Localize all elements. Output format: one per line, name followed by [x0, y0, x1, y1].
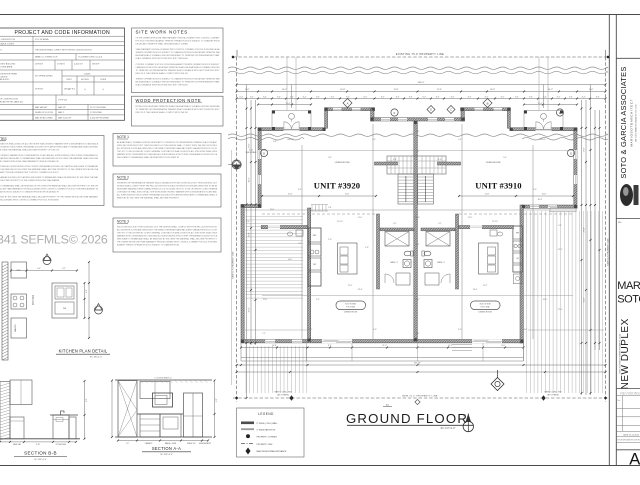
- section B-B dims: [0, 441, 76, 443]
- svg-text:4'-0": 4'-0": [246, 221, 250, 223]
- svg-text:3'-0": 3'-0": [298, 189, 302, 191]
- svg-text:A: A: [347, 101, 349, 105]
- mid dimension line across units: [244, 209, 577, 211]
- svg-text:8'-0": 8'-0": [245, 89, 249, 91]
- svg-text:14'-2": 14'-2": [548, 89, 553, 91]
- sink right unit: [424, 260, 432, 268]
- svg-text:12'-4": 12'-4": [348, 285, 353, 287]
- svg-text:8'-0": 8'-0": [589, 89, 593, 91]
- svg-text:SITE WORK NOTES: SITE WORK NOTES: [136, 29, 189, 34]
- svg-text:8'-4": 8'-4": [290, 96, 294, 98]
- svg-text:13'-4": 13'-4": [358, 289, 363, 291]
- diamond marker 1 left: [232, 160, 241, 169]
- section A-A base cabinets: [140, 414, 160, 437]
- beam dashed line right: [459, 213, 573, 215]
- svg-text:TERMITES OR PRESERVATIVE TREAT: TERMITES OR PRESERVATIVE TREATED IN ACCO…: [117, 182, 218, 185]
- svg-text:8'-4": 8'-4": [569, 96, 573, 98]
- section B-B sink cabinet: [53, 415, 69, 439]
- svg-text:3920-3910 NW 00 STREET MIAMI F: 3920-3910 NW 00 STREET MIAMI FL 33142: [618, 333, 621, 374]
- svg-text:ALL EXTERIOR DOORS AND WINDOWS: ALL EXTERIOR DOORS AND WINDOWS TO BE IMP…: [117, 229, 218, 232]
- svg-text:GROUP R-2: GROUP R-2: [64, 89, 76, 91]
- svg-text:G: G: [570, 151, 572, 155]
- svg-text:341 SEFMLS© 2026: 341 SEFMLS© 2026: [0, 233, 108, 247]
- hall wall right of stairs: [438, 162, 461, 165]
- svg-text:G: G: [263, 151, 265, 155]
- svg-text:THE DESIGN SHALL COMPLY WITH T: THE DESIGN SHALL COMPLY WITH THE FBC 202…: [35, 48, 92, 51]
- svg-text:8'-4": 8'-4": [303, 96, 307, 98]
- property corner (bottom-right): [604, 397, 606, 399]
- svg-text:8" WIDE (C.M.U) WALL: 8" WIDE (C.M.U) WALL: [257, 422, 279, 425]
- window openings right wall: [574, 150, 577, 159]
- sink left unit: [403, 260, 411, 268]
- svg-text:IN AN ORDERLY MANNER WITH CONS: IN AN ORDERLY MANNER WITH CONSIDERATION …: [0, 154, 98, 157]
- svg-text:MEANS INTERIOR FINISH: MEANS INTERIOR FINISH: [0, 73, 18, 76]
- svg-text:MAX 2: MAX 2: [58, 111, 65, 114]
- svg-text:7'-2": 7'-2": [416, 151, 420, 153]
- svg-text:THE OWNER WITH A ONE YEAR WARR: THE OWNER WITH A ONE YEAR WARRANTY FROM …: [117, 241, 218, 244]
- svg-text:ARE TO REMAIN AND SHALL BE REM: ARE TO REMAIN AND SHALL BE REMOVED BY HI…: [0, 184, 98, 187]
- svg-text:PROPERTY CORNER: PROPERTY CORNER: [257, 436, 278, 438]
- property line end flags: [236, 50, 238, 57]
- pwdr right unit: [513, 274, 522, 284]
- section A-A hatch dots ceiling: [140, 381, 143, 384]
- section A-A floor line: [115, 436, 212, 438]
- svg-text:ENTRY: ENTRY: [540, 139, 547, 141]
- svg-text:SECTION B-B: SECTION B-B: [24, 451, 57, 456]
- svg-text:2'-0": 2'-0": [298, 243, 302, 245]
- svg-text:NEW 50.75' PROPERTY LINE: NEW 50.75' PROPERTY LINE: [233, 251, 235, 279]
- property line bottom (dashed): [233, 397, 609, 399]
- svg-text:C: C: [450, 108, 452, 112]
- section B-B counter line: [50, 414, 78, 416]
- svg-text:KITCHEN SINK: KITCHEN SINK: [56, 444, 67, 446]
- grid marker diamond D: [427, 106, 435, 114]
- svg-text:ACCESS: ACCESS: [81, 78, 89, 81]
- svg-text:16'-4": 16'-4": [538, 199, 543, 201]
- title block firm box: [616, 57, 640, 59]
- svg-text:N: N: [463, 414, 466, 418]
- sliding door openings bottom wall: [322, 339, 352, 343]
- svg-text:NOTE 3: NOTE 3: [117, 220, 129, 224]
- svg-text:11'-6": 11'-6": [270, 209, 275, 211]
- svg-text:MAX 5,000 SF: MAX 5,000 SF: [58, 116, 72, 119]
- stair landing block: [387, 156, 446, 174]
- living room dim line left: [262, 195, 376, 197]
- windows front wall B right: [475, 108, 484, 111]
- sheet top border: [0, 14, 640, 16]
- svg-text:WHICH ARE TO REMAIN AND SHALL: WHICH ARE TO REMAIN AND SHALL BE REMOVED…: [117, 238, 217, 241]
- svg-text:DESIGN SHALL COMPLY WITH THE F: DESIGN SHALL COMPLY WITH THE FBC 2023 8T…: [117, 185, 217, 188]
- svg-text:WHICH ARE TO REMAIN AND SHALL: WHICH ARE TO REMAIN AND SHALL BE REMOVED…: [117, 156, 180, 159]
- svg-text:8'-4": 8'-4": [409, 96, 413, 98]
- svg-text:CLASSES AS PER FBC TABLE 601: CLASSES AS PER FBC TABLE 601: [0, 100, 23, 103]
- svg-text:CHANGES FROM BOTH DECAY AND TE: CHANGES FROM BOTH DECAY AND TERMITES SHA…: [136, 66, 221, 69]
- kitchen-living divider wall left: [261, 226, 307, 229]
- svg-text:1'-0": 1'-0": [372, 139, 376, 141]
- svg-text:REVISIONS: REVISIONS: [620, 391, 640, 395]
- left unit side steps: [311, 205, 313, 212]
- svg-text:2'-8": 2'-8": [328, 207, 332, 209]
- svg-text:12'-4": 12'-4": [483, 285, 488, 287]
- beam dashed line left: [262, 213, 376, 215]
- svg-text:DINING ROOM: DINING ROOM: [479, 311, 492, 313]
- svg-text:No.: No.: [617, 400, 621, 402]
- svg-text:8'-4": 8'-4": [346, 96, 350, 98]
- grid bubble G left: [260, 149, 267, 156]
- note 2 box: [113, 174, 221, 207]
- svg-text:EXISTING 75.0' PROPERTY LINE: EXISTING 75.0' PROPERTY LINE: [396, 52, 444, 56]
- porch right door arcs: [536, 122, 544, 130]
- svg-text:8'-4": 8'-4": [316, 96, 320, 98]
- svg-text:4'-0": 4'-0": [393, 159, 397, 161]
- section A-A counter: [137, 413, 183, 415]
- svg-text:CONTRACTOR SHALL EXECUTE ALL S: CONTRACTOR SHALL EXECUTE ALL SITE WORK I…: [117, 191, 218, 194]
- svg-text:8'-4": 8'-4": [468, 96, 472, 98]
- svg-text:2'-0": 2'-0": [328, 239, 332, 241]
- wall below stairs left: [377, 214, 380, 289]
- svg-text:FROM A LICENSED PEST CONTROL C: FROM A LICENSED PEST CONTROL COMPANY FOR…: [0, 199, 59, 202]
- svg-text:5'-10": 5'-10": [249, 150, 254, 152]
- svg-text:SC: 1/4"=1'-0": SC: 1/4"=1'-0": [441, 427, 456, 430]
- svg-text:8'-4": 8'-4": [582, 96, 586, 98]
- svg-text:FOR SOIL POISONING AGAINST TER: FOR SOIL POISONING AGAINST TERMITE OPERA…: [136, 40, 220, 43]
- svg-text:2'-0": 2'-0": [126, 443, 129, 445]
- svg-text:WARRANTY FROM A LICENSED PEST: WARRANTY FROM A LICENSED PEST CONTROL CO…: [0, 171, 59, 174]
- bottom dimension line 3: [237, 371, 606, 373]
- shower right unit: [426, 232, 450, 247]
- svg-text:B: B: [487, 101, 489, 105]
- svg-text:14'-2": 14'-2": [282, 89, 287, 91]
- svg-text:PANTRY: PANTRY: [14, 323, 17, 332]
- svg-text:NOTE 1: NOTE 1: [117, 135, 129, 139]
- legend property line symbol: [241, 443, 254, 445]
- svg-text:FROM BOTH DECAY AND TERMITES S: FROM BOTH DECAY AND TERMITES SHALL BE A …: [136, 105, 221, 108]
- svg-text:D: D: [430, 108, 432, 112]
- kitchen detail ref: [11, 262, 27, 278]
- svg-text:15'-8": 15'-8": [485, 194, 490, 196]
- svg-text:BY HIS CREW THE MATERIAL SHALL: BY HIS CREW THE MATERIAL SHALL BECOME PR…: [0, 149, 59, 152]
- svg-text:SECTIONS R502 R317 THROUGH R80: SECTIONS R502 R317 THROUGH R802 10 R THE…: [117, 226, 217, 229]
- svg-text:10'-2": 10'-2": [415, 299, 420, 301]
- svg-text:R802 10 R THE DESIGN SHALL COM: R802 10 R THE DESIGN SHALL COMPLY WITH T…: [136, 111, 189, 114]
- walkway lines top right: [538, 57, 540, 111]
- svg-text:YEAR WARRANTY FROM A LICENSED: YEAR WARRANTY FROM A LICENSED PEST CONTR…: [136, 48, 220, 51]
- svg-text:TYPE V-B: TYPE V-B: [58, 100, 68, 102]
- svg-text:DUPLEX: DUPLEX: [35, 63, 44, 65]
- front wall A right (y128): [510, 128, 577, 131]
- party wall: [414, 121, 418, 341]
- front wall center (y118): [371, 118, 465, 121]
- svg-text:MAX HEIGHT: MAX HEIGHT: [35, 106, 48, 109]
- svg-text:PROPERTY LINE: PROPERTY LINE: [257, 444, 274, 446]
- grid bubble F: [391, 109, 398, 116]
- bottom dimension line 2: [237, 364, 606, 366]
- existing property line (top): [233, 56, 609, 58]
- svg-text:8'-4": 8'-4": [485, 96, 489, 98]
- svg-text:16'-8": 16'-8": [340, 89, 345, 91]
- toilet right unit: [424, 251, 431, 256]
- svg-text:21'-10": 21'-10": [337, 221, 343, 223]
- svg-text:MIAMI 21, ZONING T3-R: MIAMI 21, ZONING T3-R: [35, 56, 58, 59]
- left wing floor hatch: [246, 216, 304, 218]
- kitchen detail dims: [84, 283, 86, 318]
- project and code information table: [0, 28, 125, 120]
- section B-B base cabinet: [10, 417, 24, 439]
- diamond marker 4 on axis: [415, 399, 420, 404]
- kitchen detail marker diamond 2: [95, 306, 103, 314]
- wall step down right-center: [461, 108, 464, 121]
- svg-text:5'-4": 5'-4": [416, 244, 420, 246]
- section cut marker: [491, 378, 504, 391]
- svg-text:KITCHEN: KITCHEN: [32, 294, 35, 305]
- interior wall kitchen left: [308, 208, 311, 341]
- svg-text:17'-0": 17'-0": [583, 147, 585, 152]
- svg-text:5' CUSTOM SHELF x2: 5' CUSTOM SHELF x2: [154, 377, 171, 379]
- svg-text:MANNER WITH CONSIDERATION TO A: MANNER WITH CONSIDERATION TO ANY AND ALL…: [117, 153, 218, 156]
- svg-text:TYPE OF CONSTRUCTION: TYPE OF CONSTRUCTION: [0, 99, 18, 101]
- svg-text:TO TERMITES OR PRESERVATIVE TR: TO TERMITES OR PRESERVATIVE TREATED IN A…: [136, 108, 221, 111]
- legend cmu wall symbol: [241, 422, 254, 425]
- svg-text:8'-4": 8'-4": [557, 96, 561, 98]
- svg-text:LOCAL JURISDICTION: LOCAL JURISDICTION: [0, 38, 16, 41]
- title block line under logo: [616, 218, 640, 220]
- svg-text:11'-0": 11'-0": [468, 217, 473, 219]
- svg-text:27'-4": 27'-4": [248, 232, 250, 237]
- svg-text:15'-4": 15'-4": [538, 103, 543, 105]
- svg-text:11'-6": 11'-6": [437, 89, 442, 91]
- svg-text:8'-4": 8'-4": [250, 96, 254, 98]
- svg-text:5'-0": 5'-0": [503, 157, 507, 159]
- svg-text:2'-0": 2'-0": [365, 247, 369, 249]
- svg-text:246'-0": 246'-0": [418, 82, 425, 84]
- svg-text:LIVING ROOM: LIVING ROOM: [335, 162, 350, 164]
- svg-text:SURROUNDING STRUCTURES OPEN AR: SURROUNDING STRUCTURES OPEN AREAS SODDIN…: [0, 146, 98, 149]
- left wall vertical lower: [241, 205, 244, 343]
- svg-text:8'-4": 8'-4": [501, 96, 505, 98]
- svg-text:NO SPRINKLERED: NO SPRINKLERED: [35, 76, 53, 78]
- svg-text:NEW DUPLEX: NEW DUPLEX: [620, 318, 631, 389]
- windows front wall center: [381, 118, 390, 121]
- svg-text:2 PROVIDED: 2 PROVIDED: [90, 112, 103, 114]
- stair flights: [398, 174, 414, 204]
- section A-A wall cabinets: [140, 382, 170, 399]
- svg-text:25'-0" PROVIDED: 25'-0" PROVIDED: [90, 107, 107, 109]
- svg-text:SC: 3/8"=1'-0": SC: 3/8"=1'-0": [160, 454, 173, 456]
- walkway lines top left: [286, 57, 288, 111]
- svg-text:SHALL BE REMOVED BY HIS CREW T: SHALL BE REMOVED BY HIS CREW THE MATERIA…: [0, 168, 99, 171]
- kitchen counter left unit: [308, 228, 321, 286]
- grid bubble G right: [567, 149, 574, 156]
- firm logo: [620, 184, 633, 206]
- svg-text:ALL EXTERIOR DOORS AND WINDOWS: ALL EXTERIOR DOORS AND WINDOWS TO BE IMP…: [117, 147, 218, 150]
- section B-B faucet: [61, 411, 65, 415]
- svg-text:TO ANY AND ALL SURROUNDING STR: TO ANY AND ALL SURROUNDING STRUCTURES OP…: [0, 165, 99, 168]
- svg-text:IN ACCORDANCE WITH SECTIONS R5: IN ACCORDANCE WITH SECTIONS R502 R317 TH…: [136, 83, 189, 86]
- svg-text:NEW 5' CONC. S/W: NEW 5' CONC. S/W: [274, 392, 291, 394]
- svg-text:11'-1": 11'-1": [558, 249, 563, 251]
- shower left unit: [385, 232, 409, 247]
- svg-text:17'-0": 17'-0": [248, 143, 250, 148]
- grid bubble B: [483, 99, 492, 108]
- svg-text:WITH SECTIONS R502 R317 THROUG: WITH SECTIONS R502 R317 THROUGH R802 10 …: [117, 144, 218, 147]
- svg-text:OCCUPANCY (FBC Chap 3): OCCUPANCY (FBC Chap 3): [78, 56, 102, 59]
- stair arrows: [405, 176, 407, 202]
- svg-text:WOOD PROTECTION NOTE: WOOD PROTECTION NOTE: [136, 98, 202, 103]
- svg-text:NOTE 2: NOTE 2: [117, 176, 129, 180]
- svg-text:9'-0": 9'-0": [458, 329, 462, 331]
- svg-text:8'-4": 8'-4": [396, 96, 400, 98]
- property corner (top-left): [232, 56, 234, 58]
- svg-text:19'-0": 19'-0": [523, 329, 528, 331]
- kitchen detail wall strip: [2, 262, 8, 360]
- section B-B wall strip: [0, 382, 10, 439]
- svg-text:NEW 75.0' PROPERTY LINE: NEW 75.0' PROPERTY LINE: [402, 396, 438, 398]
- property line left (dashed): [236, 57, 238, 402]
- svg-text:BE A NATURALLY DURABLE SPECIES: BE A NATURALLY DURABLE SPECIES RESISTANT…: [136, 54, 221, 57]
- svg-text:11'-0": 11'-0": [415, 217, 420, 219]
- revisions table: [616, 407, 640, 409]
- patio slab lines: [241, 357, 524, 359]
- property corner (bottom-left): [236, 397, 238, 399]
- svg-text:UNIT #3920: UNIT #3920: [314, 181, 360, 191]
- wall below stairs right: [456, 214, 459, 289]
- svg-text:CLASS: CLASS: [84, 72, 91, 75]
- svg-text:3'-0": 3'-0": [533, 189, 537, 191]
- svg-text:IN ACCORDANCE WITH SECTIONS R5: IN ACCORDANCE WITH SECTIONS R502 R317 TH…: [136, 57, 189, 60]
- interior vertical dim lines: [291, 85, 293, 109]
- svg-text:14'-6": 14'-6": [288, 259, 293, 261]
- kitchen island right: [479, 243, 499, 274]
- svg-text:19'-0": 19'-0": [308, 329, 313, 331]
- site work notes box: [132, 28, 224, 93]
- window openings left wall: [258, 150, 261, 159]
- svg-text:NOTIFICATION: NOTIFICATION: [0, 75, 8, 78]
- grid bubble E: [556, 109, 563, 116]
- right wall vertical upper: [574, 128, 577, 208]
- svg-text:BATH #1: BATH #1: [390, 261, 397, 264]
- entry door opening right: [536, 127, 552, 131]
- note 3 box: [113, 218, 221, 252]
- svg-text:8'-0": 8'-0": [328, 345, 332, 347]
- svg-text:BE A NATURALLY DURABLE SPECIES: BE A NATURALLY DURABLE SPECIES RESISTANT…: [117, 141, 218, 144]
- porch left door arcs: [284, 122, 292, 130]
- wall corner posts: [258, 128, 261, 131]
- svg-text:DATE: 01-15-2026: DATE: 01-15-2026: [623, 433, 639, 436]
- property corner (top-right): [607, 56, 609, 58]
- notes box: [0, 136, 104, 206]
- closet left unit: [396, 273, 410, 285]
- svg-text:8'-0": 8'-0": [216, 398, 218, 402]
- svg-text:16'-8": 16'-8": [490, 89, 495, 91]
- section B-B side panel: [69, 417, 76, 439]
- window openings right wing wall: [530, 205, 539, 208]
- legend entrance symbol: [246, 448, 251, 455]
- svg-text:5'-0": 5'-0": [328, 157, 332, 159]
- svg-text:27'-4": 27'-4": [583, 227, 585, 232]
- svg-text:8'-4": 8'-4": [381, 96, 385, 98]
- left jog wall: [241, 205, 261, 208]
- svg-text:OPERATION WOOD SUBJECT TO CHAN: OPERATION WOOD SUBJECT TO CHANGES FROM B…: [0, 190, 59, 193]
- svg-text:8'-4": 8'-4": [422, 96, 426, 98]
- svg-text:31'-0": 31'-0": [248, 307, 250, 312]
- right wing planter step: [550, 208, 576, 212]
- right wing bottom wall: [522, 205, 577, 208]
- powder room right: [497, 232, 503, 236]
- section A-A right vdim: [214, 381, 216, 438]
- svg-text:PROPOSED BUILDING: PROPOSED BUILDING: [0, 64, 16, 66]
- svg-text:MSL: MSL: [618, 222, 622, 224]
- section A-A ceiling line: [115, 379, 212, 381]
- kitchen-living divider wall right: [459, 226, 514, 229]
- svg-text:5'-2": 5'-2": [316, 299, 320, 301]
- svg-text:8'-4": 8'-4": [515, 96, 519, 98]
- note 1 box: [113, 134, 221, 167]
- svg-text:APPLICABLE CODES: APPLICABLE CODES: [0, 43, 15, 46]
- top dimension short segments: [258, 104, 311, 106]
- corner drop lines to patio: [305, 343, 307, 361]
- svg-text:OF THE OWNER WITH A ONE YEAR W: OF THE OWNER WITH A ONE YEAR WARRANTY FR…: [136, 37, 221, 40]
- building bottom wall: [241, 340, 523, 343]
- grid marker diamond C: [447, 106, 455, 114]
- svg-text:4,404 SF PROVIDED: 4,404 SF PROVIDED: [90, 117, 110, 119]
- legend property corner symbol: [246, 434, 250, 438]
- svg-text:KITCHEN PLAN DETAIL: KITCHEN PLAN DETAIL: [59, 349, 108, 354]
- north arrow: [463, 421, 473, 431]
- closet right unit: [425, 273, 439, 285]
- svg-text:RESISTANT MANUFACTURER CHARACT: RESISTANT MANUFACTURER CHARACTERISTICS C…: [117, 188, 218, 191]
- svg-text:8'-4": 8'-4": [331, 96, 335, 98]
- bath walls left unit: [380, 228, 414, 231]
- front wall B left (y108): [325, 108, 375, 111]
- wood protection note box: [132, 96, 224, 126]
- svg-text:AR 91234 MIAMI FLORIDA 305: AR 91234 MIAMI FLORIDA 305 555 1234: [635, 104, 638, 142]
- section B-B floor line: [0, 438, 80, 440]
- svg-text:8'-4": 8'-4": [277, 96, 281, 98]
- svg-text:DUPLEX: DUPLEX: [35, 89, 44, 91]
- hall wall left of stairs: [375, 162, 398, 165]
- svg-text:OF THE OWNER WITH A ONE YEAR W: OF THE OWNER WITH A ONE YEAR WARRANTY FR…: [0, 160, 59, 163]
- svg-text:5'-0": 5'-0": [37, 268, 41, 270]
- section B-B upper cabinet: [10, 380, 32, 405]
- svg-text:TO TERMITES OR PRESERVATIVE TR: TO TERMITES OR PRESERVATIVE TREATED IN A…: [136, 69, 221, 72]
- svg-text:MAIN PEDESTRIAN ENTRANCE: MAIN PEDESTRIAN ENTRANCE: [257, 450, 288, 453]
- hedge scallop band (top): [228, 67, 608, 69]
- svg-text:9'-0": 9'-0": [373, 329, 377, 331]
- kitchen detail pantry: [11, 318, 27, 338]
- svg-text:TERMITE OPERATION WOOD SUBJECT: TERMITE OPERATION WOOD SUBJECT TO CHANGE…: [136, 51, 221, 54]
- svg-text:R802 10 R THE DESIGN SHALL COM: R802 10 R THE DESIGN SHALL COMPLY WITH T…: [136, 72, 189, 75]
- svg-text:3'-1": 3'-1": [438, 223, 442, 225]
- svg-text:10'-8": 10'-8": [272, 345, 277, 347]
- svg-text:4" WIDE PARTITION: 4" WIDE PARTITION: [257, 429, 276, 432]
- svg-text:15'-8": 15'-8": [345, 194, 350, 196]
- svg-text:NEW 50.75' PROPERTY LINE: NEW 50.75' PROPERTY LINE: [607, 238, 609, 266]
- legend partition symbol: [241, 428, 254, 430]
- svg-text:8'-4": 8'-4": [451, 96, 455, 98]
- kitchen counter right unit: [513, 226, 522, 272]
- svg-text:BATH #1: BATH #1: [437, 261, 444, 264]
- dining table left: [336, 301, 366, 310]
- svg-text:NOTES: NOTES: [0, 137, 7, 141]
- front wall B right (y108): [460, 108, 510, 111]
- svg-text:WITH A ONE YEAR WARRANTY FROM: WITH A ONE YEAR WARRANTY FROM A LICENSED…: [0, 187, 99, 190]
- kitchen detail marker diamond: [43, 257, 51, 265]
- svg-text:CONTRACTOR SHALL EXECUTE ALL S: CONTRACTOR SHALL EXECUTE ALL SITE WORK I…: [0, 143, 99, 146]
- svg-text:15'-4": 15'-4": [286, 103, 291, 105]
- svg-text:OPEN AREAS SODDING OR PLANTING: OPEN AREAS SODDING OR PLANTING WHICH ARE…: [0, 176, 99, 179]
- svg-text:DW: DW: [63, 308, 66, 310]
- svg-text:13'-4": 13'-4": [473, 289, 478, 291]
